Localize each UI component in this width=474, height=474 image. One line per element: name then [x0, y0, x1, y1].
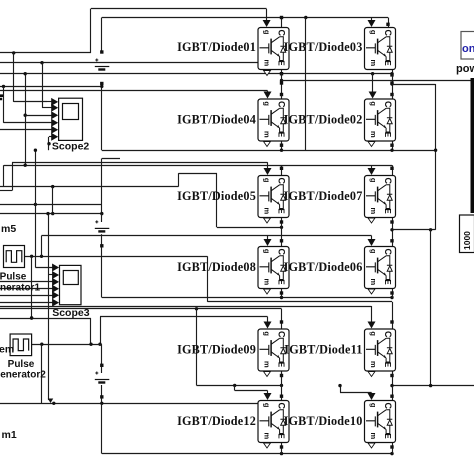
svg-text:g: g — [369, 178, 378, 183]
wire: gate line IGBT05 — [12, 162, 268, 164]
wire: leg A vertical E05-C08 — [281, 227, 283, 246]
svg-text:C: C — [383, 249, 393, 256]
svg-text:g: g — [369, 249, 378, 254]
wire: bridge2 leg A mid — [217, 227, 282, 229]
svg-text:1000: 1000 — [462, 231, 472, 250]
IGBT/Diode block IGBT/Diode09 — [258, 329, 289, 371]
IGBT/Diode block IGBT/Diode11 — [365, 329, 396, 371]
svg-text:E: E — [383, 132, 392, 138]
wire: scope3 in6 — [0, 302, 53, 304]
m output port IGBT10 — [368, 443, 375, 448]
wire: Scope2 input 5 from left edge — [0, 129, 52, 131]
m output port IGBT02 — [368, 142, 375, 147]
svg-text:g: g — [369, 101, 378, 106]
powergui block — [461, 32, 474, 60]
wire: pulse generator2 output — [32, 344, 102, 346]
svg-text:IGBT/Diode02: IGBT/Diode02 — [284, 113, 363, 127]
wire: tap to Scope2 input 4 — [3, 86, 5, 122]
wire: bottom DC- bus bridge3 — [102, 453, 392, 455]
wire: gate line IGBT08 and IGBT06 — [42, 235, 372, 237]
svg-text:g: g — [369, 30, 378, 35]
svg-text:C: C — [277, 30, 287, 37]
wire: bridge3 leg B line to right edge — [392, 385, 474, 387]
svg-text:C: C — [383, 331, 393, 338]
wire: corner to battery3 — [90, 318, 92, 344]
svg-text:g: g — [263, 178, 272, 183]
wire: bottom left bus y403 — [0, 403, 258, 405]
svg-text:g: g — [263, 403, 272, 408]
svg-text:m1: m1 — [2, 429, 17, 441]
left edge measurement block fragment m4 — [0, 96, 3, 99]
wire: battery2 top lead — [101, 214, 103, 222]
wire: battery1 negative return — [0, 86, 102, 88]
wire: leg A vertical E09-C12 — [281, 385, 283, 400]
pulse generator 1 block — [4, 246, 25, 268]
wire: left riser bridge3 — [100, 317, 102, 345]
wire: battery2 negative bus to emitters bridge2 — [102, 297, 392, 299]
svg-text:m: m — [263, 361, 272, 368]
wire: gate jog IGBT12 — [234, 385, 236, 390]
m output port IGBT07 — [368, 218, 375, 223]
wire: gate jog IGBT10 — [340, 386, 342, 393]
wire: left line y213 battery2 top — [0, 213, 102, 215]
wire: vertical from pulse2 node down — [41, 344, 43, 403]
wire: E stub IGBT01 — [281, 70, 283, 74]
wire: bridge3 feed line3 — [0, 308, 282, 310]
svg-text:E: E — [277, 208, 286, 214]
wire: riser pulse1 to gate08 — [41, 236, 43, 257]
wire: tap down to Scope2 input 1 — [13, 53, 15, 102]
wire: bridge3 leg A mid line — [197, 385, 282, 387]
svg-text:C: C — [277, 101, 287, 108]
wire: E stub IGBT07 — [392, 218, 394, 230]
svg-text:IGBT/Diode11: IGBT/Diode11 — [284, 343, 362, 357]
wire: to Scope2 input 3 — [25, 115, 51, 117]
svg-text:g: g — [263, 101, 272, 106]
IGBT/Diode block IGBT/Diode12 — [258, 401, 289, 443]
svg-text:pow: pow — [456, 63, 474, 75]
wire: left line y318 — [0, 318, 91, 320]
wire: DC- bus bridge1 — [102, 150, 436, 152]
svg-text:nerator1: nerator1 — [0, 283, 40, 294]
wire: bridge3 feed line2 gate11 — [0, 306, 372, 308]
m output port IGBT12 — [264, 443, 271, 448]
IGBT/Diode block IGBT/Diode06 — [365, 247, 396, 289]
IGBT/Diode block IGBT/Diode03 — [365, 28, 396, 70]
IGBT/Diode block IGBT/Diode08 — [258, 247, 289, 289]
wire: C stub IGBT04 — [281, 95, 283, 99]
wire: left feeder to bridge2 leg A — [0, 186, 179, 188]
m output port IGBT08 — [264, 289, 271, 294]
wire: C stub IGBT01 — [281, 19, 283, 27]
wire: vertical x217 down — [216, 173, 218, 227]
svg-text:IGBT/Diode04: IGBT/Diode04 — [177, 113, 256, 127]
wire: vertical x48 down — [48, 275, 50, 400]
svg-text:m: m — [369, 131, 378, 138]
pulse generator 2 block — [10, 334, 32, 356]
scope block Scope2 — [59, 98, 83, 140]
svg-text:IGBT/Diode09: IGBT/Diode09 — [177, 343, 256, 357]
wire: riser between columns to gate of IGBT03 — [305, 18, 307, 151]
svg-text:C: C — [383, 101, 393, 108]
svg-text:E: E — [277, 132, 286, 138]
wire: vertical x196 down to bridge3 leg A — [196, 309, 198, 386]
wire: vertical x207 down to bridge3 feeds — [207, 256, 209, 302]
svg-text:E: E — [383, 60, 392, 66]
svg-text:IGBT/Diode03: IGBT/Diode03 — [284, 40, 363, 54]
series RLC load 1000 ohm — [460, 215, 474, 253]
svg-text:C: C — [383, 178, 393, 185]
svg-text:Pulse: Pulse — [8, 359, 35, 370]
wire: bridge3 feed line1 — [208, 301, 393, 303]
svg-text:C: C — [277, 249, 287, 256]
svg-text:E: E — [277, 362, 286, 368]
svg-text:m: m — [369, 278, 378, 285]
IGBT/Diode block IGBT/Diode01 — [258, 28, 289, 70]
svg-text:C: C — [383, 403, 393, 410]
wire: E stub IGBT08 — [281, 289, 283, 298]
wire: battery3 return vertical — [101, 403, 103, 453]
wire: right series vertical — [435, 84, 437, 230]
wire: scope3 in1 feed — [35, 150, 37, 267]
IGBT/Diode block IGBT/Diode05 — [258, 176, 289, 218]
wire: riser for gate line IGBT05 — [12, 162, 14, 190]
svg-text:m: m — [263, 131, 272, 138]
wire: vertical leg B bridge1 E03-C02 — [392, 75, 394, 95]
svg-text:m: m — [263, 432, 272, 439]
m output port IGBT09 — [264, 372, 271, 377]
wire: scope3 in5 — [0, 295, 53, 297]
wire: vertical x31.6 — [31, 256, 33, 318]
svg-text:IGBT/Diode12: IGBT/Diode12 — [177, 414, 256, 428]
IGBT/Diode block IGBT/Diode04 — [258, 99, 289, 141]
wire: stub arrow onto bottom bus — [50, 399, 52, 402]
wire: left line y204 — [0, 204, 102, 206]
wire: E stub IGBT11 — [392, 372, 394, 386]
svg-text:Pulse: Pulse — [0, 272, 27, 283]
svg-text:IGBT/Diode10: IGBT/Diode10 — [284, 414, 363, 428]
wire: bridge2 leg B to right vertical — [392, 229, 436, 231]
svg-text:E: E — [383, 433, 392, 439]
m output port IGBT04 — [264, 142, 271, 147]
wire: E stub IGBT06 — [392, 289, 394, 298]
svg-text:m: m — [369, 59, 378, 66]
wire: battery1 bottom drop — [101, 85, 103, 150]
svg-text:C: C — [277, 403, 287, 410]
svg-text:E: E — [383, 362, 392, 368]
svg-text:IGBT/Diode01: IGBT/Diode01 — [177, 40, 256, 54]
m output port IGBT11 — [368, 372, 375, 377]
svg-text:IGBT/Diode05: IGBT/Diode05 — [177, 189, 256, 203]
wire: battery2 plus riser — [101, 159, 103, 214]
wire: vertical x25 tap — [25, 74, 27, 166]
m output port IGBT06 — [368, 289, 375, 294]
DC voltage source battery3 — [95, 372, 110, 383]
wire: leg B vertical E07-C06 — [392, 230, 394, 246]
svg-text:m: m — [369, 361, 378, 368]
svg-text:E: E — [277, 60, 286, 66]
wire: C stub IGBT05 — [281, 165, 283, 175]
DC voltage source battery2 — [95, 220, 110, 231]
IGBT/Diode block IGBT/Diode07 — [365, 176, 396, 218]
wire: leg B branch right — [392, 84, 436, 86]
wire: right vertical lower — [430, 230, 432, 386]
wire: gate drop IGBT07 — [371, 165, 373, 170]
svg-text:C: C — [383, 30, 393, 37]
wire: battery3 bottom lead — [101, 385, 103, 396]
wire: E stub IGBT10 — [392, 443, 394, 454]
measurement block right edge (cut off) — [471, 78, 474, 213]
wire: tap down x52.7 — [52, 187, 54, 214]
m output port IGBT01 — [264, 71, 271, 76]
wire: vertical leg A bridge1 E01-C04 — [281, 74, 283, 95]
wire: E stub IGBT09 — [281, 372, 283, 386]
wire: scope3 in3 — [0, 281, 53, 283]
wire: C stub IGBT03 — [388, 26, 390, 28]
wire: battery3 top lead — [101, 344, 103, 364]
wire: gate drop IGBT03 — [371, 18, 373, 23]
svg-text:E: E — [277, 433, 286, 439]
svg-text:IGBT/Diode06: IGBT/Diode06 — [284, 260, 363, 274]
wire: gate line 2 from left to IGBT01 area — [0, 62, 258, 64]
IGBT/Diode block IGBT/Diode10 — [365, 401, 396, 443]
wire: gate line IGBT07 bus — [4, 165, 392, 167]
svg-text:m: m — [263, 207, 272, 214]
wire: gate drop IGBT02 from bus — [371, 72, 374, 75]
wire: leg A output to load — [282, 80, 471, 82]
svg-text:g: g — [263, 249, 272, 254]
wire: E stub IGBT04 — [281, 142, 283, 151]
wire: E stub IGBT03 — [392, 70, 394, 74]
svg-text:m5: m5 — [1, 223, 16, 235]
svg-text:g: g — [263, 30, 272, 35]
wire: gate line IGBT04 — [0, 90, 268, 92]
wire: scope3 in4 — [0, 288, 53, 290]
m output port IGBT05 — [264, 218, 271, 223]
scope block Scope3 — [60, 265, 82, 304]
svg-text:C: C — [277, 331, 287, 338]
svg-text:m: m — [263, 59, 272, 66]
wire: E stub IGBT05 — [281, 218, 283, 227]
svg-text:Scope2: Scope2 — [52, 140, 90, 152]
IGBT/Diode block IGBT/Diode02 — [365, 99, 396, 141]
wire: C stub IGBT11 — [392, 302, 394, 329]
wire: scope3 in2 feed — [48, 214, 50, 275]
wire: DC+ bus bridge1 from battery1 to collectors — [101, 18, 103, 51]
svg-text:g: g — [263, 331, 272, 336]
wire: m/E bus y73.7 bridge1 — [0, 73, 392, 75]
svg-text:E: E — [383, 279, 392, 285]
wire: bridge3 feed line4 gate09 — [100, 316, 268, 318]
DC voltage source battery1 — [95, 59, 110, 70]
wire: E stub IGBT02 — [392, 142, 394, 151]
wire: tap to Scope2 input 2 — [42, 63, 44, 108]
svg-text:m: m — [263, 278, 272, 285]
svg-text:Scope3: Scope3 — [52, 307, 90, 319]
svg-text:m: m — [369, 432, 378, 439]
wire: corner riser x3.8 — [3, 165, 5, 186]
wire: leg B vertical E11-C10 — [392, 386, 394, 400]
svg-text:E: E — [277, 279, 286, 285]
wire: pulse generator1 output — [25, 256, 208, 258]
svg-text:em: em — [0, 344, 14, 356]
svg-text:enerator2: enerator2 — [0, 370, 46, 381]
wire: Scope2 input 6 riser — [48, 137, 50, 150]
svg-text:g: g — [369, 331, 378, 336]
svg-text:IGBT/Diode07: IGBT/Diode07 — [284, 189, 363, 203]
wire: C stub IGBT09 — [281, 309, 283, 329]
wire: E stub IGBT12 — [281, 443, 283, 454]
wire: gate line to IGBT01 from left source — [0, 52, 91, 54]
svg-text:g: g — [369, 403, 378, 408]
wire: battery2 negative drop — [101, 247, 103, 298]
svg-text:C: C — [277, 178, 287, 185]
svg-text:E: E — [383, 208, 392, 214]
svg-text:on: on — [462, 43, 474, 55]
svg-text:IGBT/Diode08: IGBT/Diode08 — [177, 260, 256, 274]
wire: battery2 bottom lead — [101, 234, 103, 244]
wire: C stub IGBT07 — [392, 165, 394, 175]
svg-text:m: m — [369, 207, 378, 214]
